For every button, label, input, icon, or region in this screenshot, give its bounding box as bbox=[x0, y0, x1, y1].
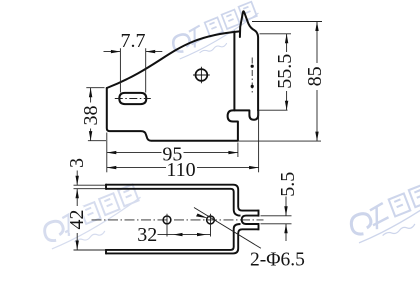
svg-text:5.5: 5.5 bbox=[277, 172, 299, 197]
dim 38 ext + line bbox=[86, 88, 104, 141]
42 down arrow bbox=[76, 241, 79, 251]
38 arrows bbox=[89, 88, 92, 98]
slot (obround) in plate bbox=[119, 93, 146, 104]
7.7 arrows bbox=[111, 50, 121, 53]
dim 55.5 exts bbox=[258, 34, 291, 110]
watermark left bbox=[39, 183, 148, 250]
dim 85 line bbox=[316, 22, 318, 142]
arrowheads top view bbox=[89, 22, 319, 170]
dim 7.7 extension lines bbox=[120, 48, 145, 92]
column (flange) left edge bbox=[233, 32, 235, 111]
85 arrows bbox=[315, 22, 318, 32]
fork slot (between bars) bbox=[242, 216, 259, 224]
top bar tip cap bbox=[258, 210, 260, 217]
95 arrows bbox=[107, 151, 117, 154]
outer top + fork top bar bbox=[106, 185, 259, 211]
32 arrows bbox=[173, 233, 183, 236]
110 arrows bbox=[107, 166, 117, 169]
arrowheads bottom view bbox=[76, 176, 288, 250]
plate left edge extension down bbox=[106, 133, 108, 173]
inner bottom wall bbox=[106, 224, 241, 250]
dim 42 line bbox=[76, 189, 78, 250]
3 down arrow bbox=[76, 176, 79, 186]
watermark top bbox=[168, 1, 265, 60]
dim 110 line bbox=[107, 167, 259, 169]
svg-text:42: 42 bbox=[66, 210, 88, 230]
plate outline: left edge, bottom step, hook, U-notch bbox=[107, 88, 258, 141]
dim 95 line bbox=[107, 152, 238, 154]
centerline bottom view bbox=[92, 219, 264, 221]
dim 95 right ext bbox=[237, 143, 239, 158]
svg-text:3: 3 bbox=[66, 158, 88, 168]
plate top curved edge bbox=[107, 31, 240, 88]
leader arrow bbox=[196, 214, 208, 219]
dim 110 right ext (column edge extended) bbox=[258, 111, 260, 172]
42 up arrow (shared with 3) bbox=[76, 189, 79, 199]
hidden centerline in column bbox=[251, 58, 254, 94]
hole with center cross bbox=[193, 67, 210, 84]
svg-text:7.7: 7.7 bbox=[121, 30, 146, 52]
dim 7.7 lines bbox=[104, 51, 163, 53]
svg-text:2-Φ6.5: 2-Φ6.5 bbox=[250, 250, 305, 271]
svg-text:85: 85 bbox=[304, 66, 326, 86]
55.5 arrows bbox=[285, 34, 288, 44]
svg-text:38: 38 bbox=[80, 106, 102, 126]
svg-text:32: 32 bbox=[137, 224, 157, 246]
dim 32 line bbox=[158, 234, 211, 236]
dim 3 line bbox=[76, 171, 78, 186]
slot centerline bbox=[115, 98, 151, 100]
svg-text:110: 110 bbox=[166, 159, 195, 181]
dim 5.5 lines bbox=[285, 197, 287, 242]
5.5 arrows bbox=[284, 206, 287, 216]
outer bottom + fork bottom bar bbox=[106, 229, 259, 253]
watermark right bbox=[345, 174, 420, 244]
dim texts bottom view bbox=[66, 158, 88, 168]
bottom bar tip cap bbox=[258, 223, 260, 230]
bottom edge thin extension left bbox=[88, 140, 106, 142]
inner top wall bbox=[106, 189, 241, 216]
fin tab and column right edge bbox=[240, 11, 258, 110]
dim 5.5 exts bbox=[261, 216, 292, 224]
wall thin extensions at open left end bbox=[74, 185, 106, 250]
leader line for 2-phi6.5 bbox=[194, 208, 261, 249]
holes bottom view bbox=[163, 216, 214, 224]
svg-text:55.5: 55.5 bbox=[274, 54, 296, 89]
dim 55.5 line bbox=[286, 34, 288, 110]
left end caps bbox=[105, 184, 107, 255]
dim 85 exts bbox=[238, 22, 322, 142]
hole tick marks bbox=[167, 214, 211, 237]
